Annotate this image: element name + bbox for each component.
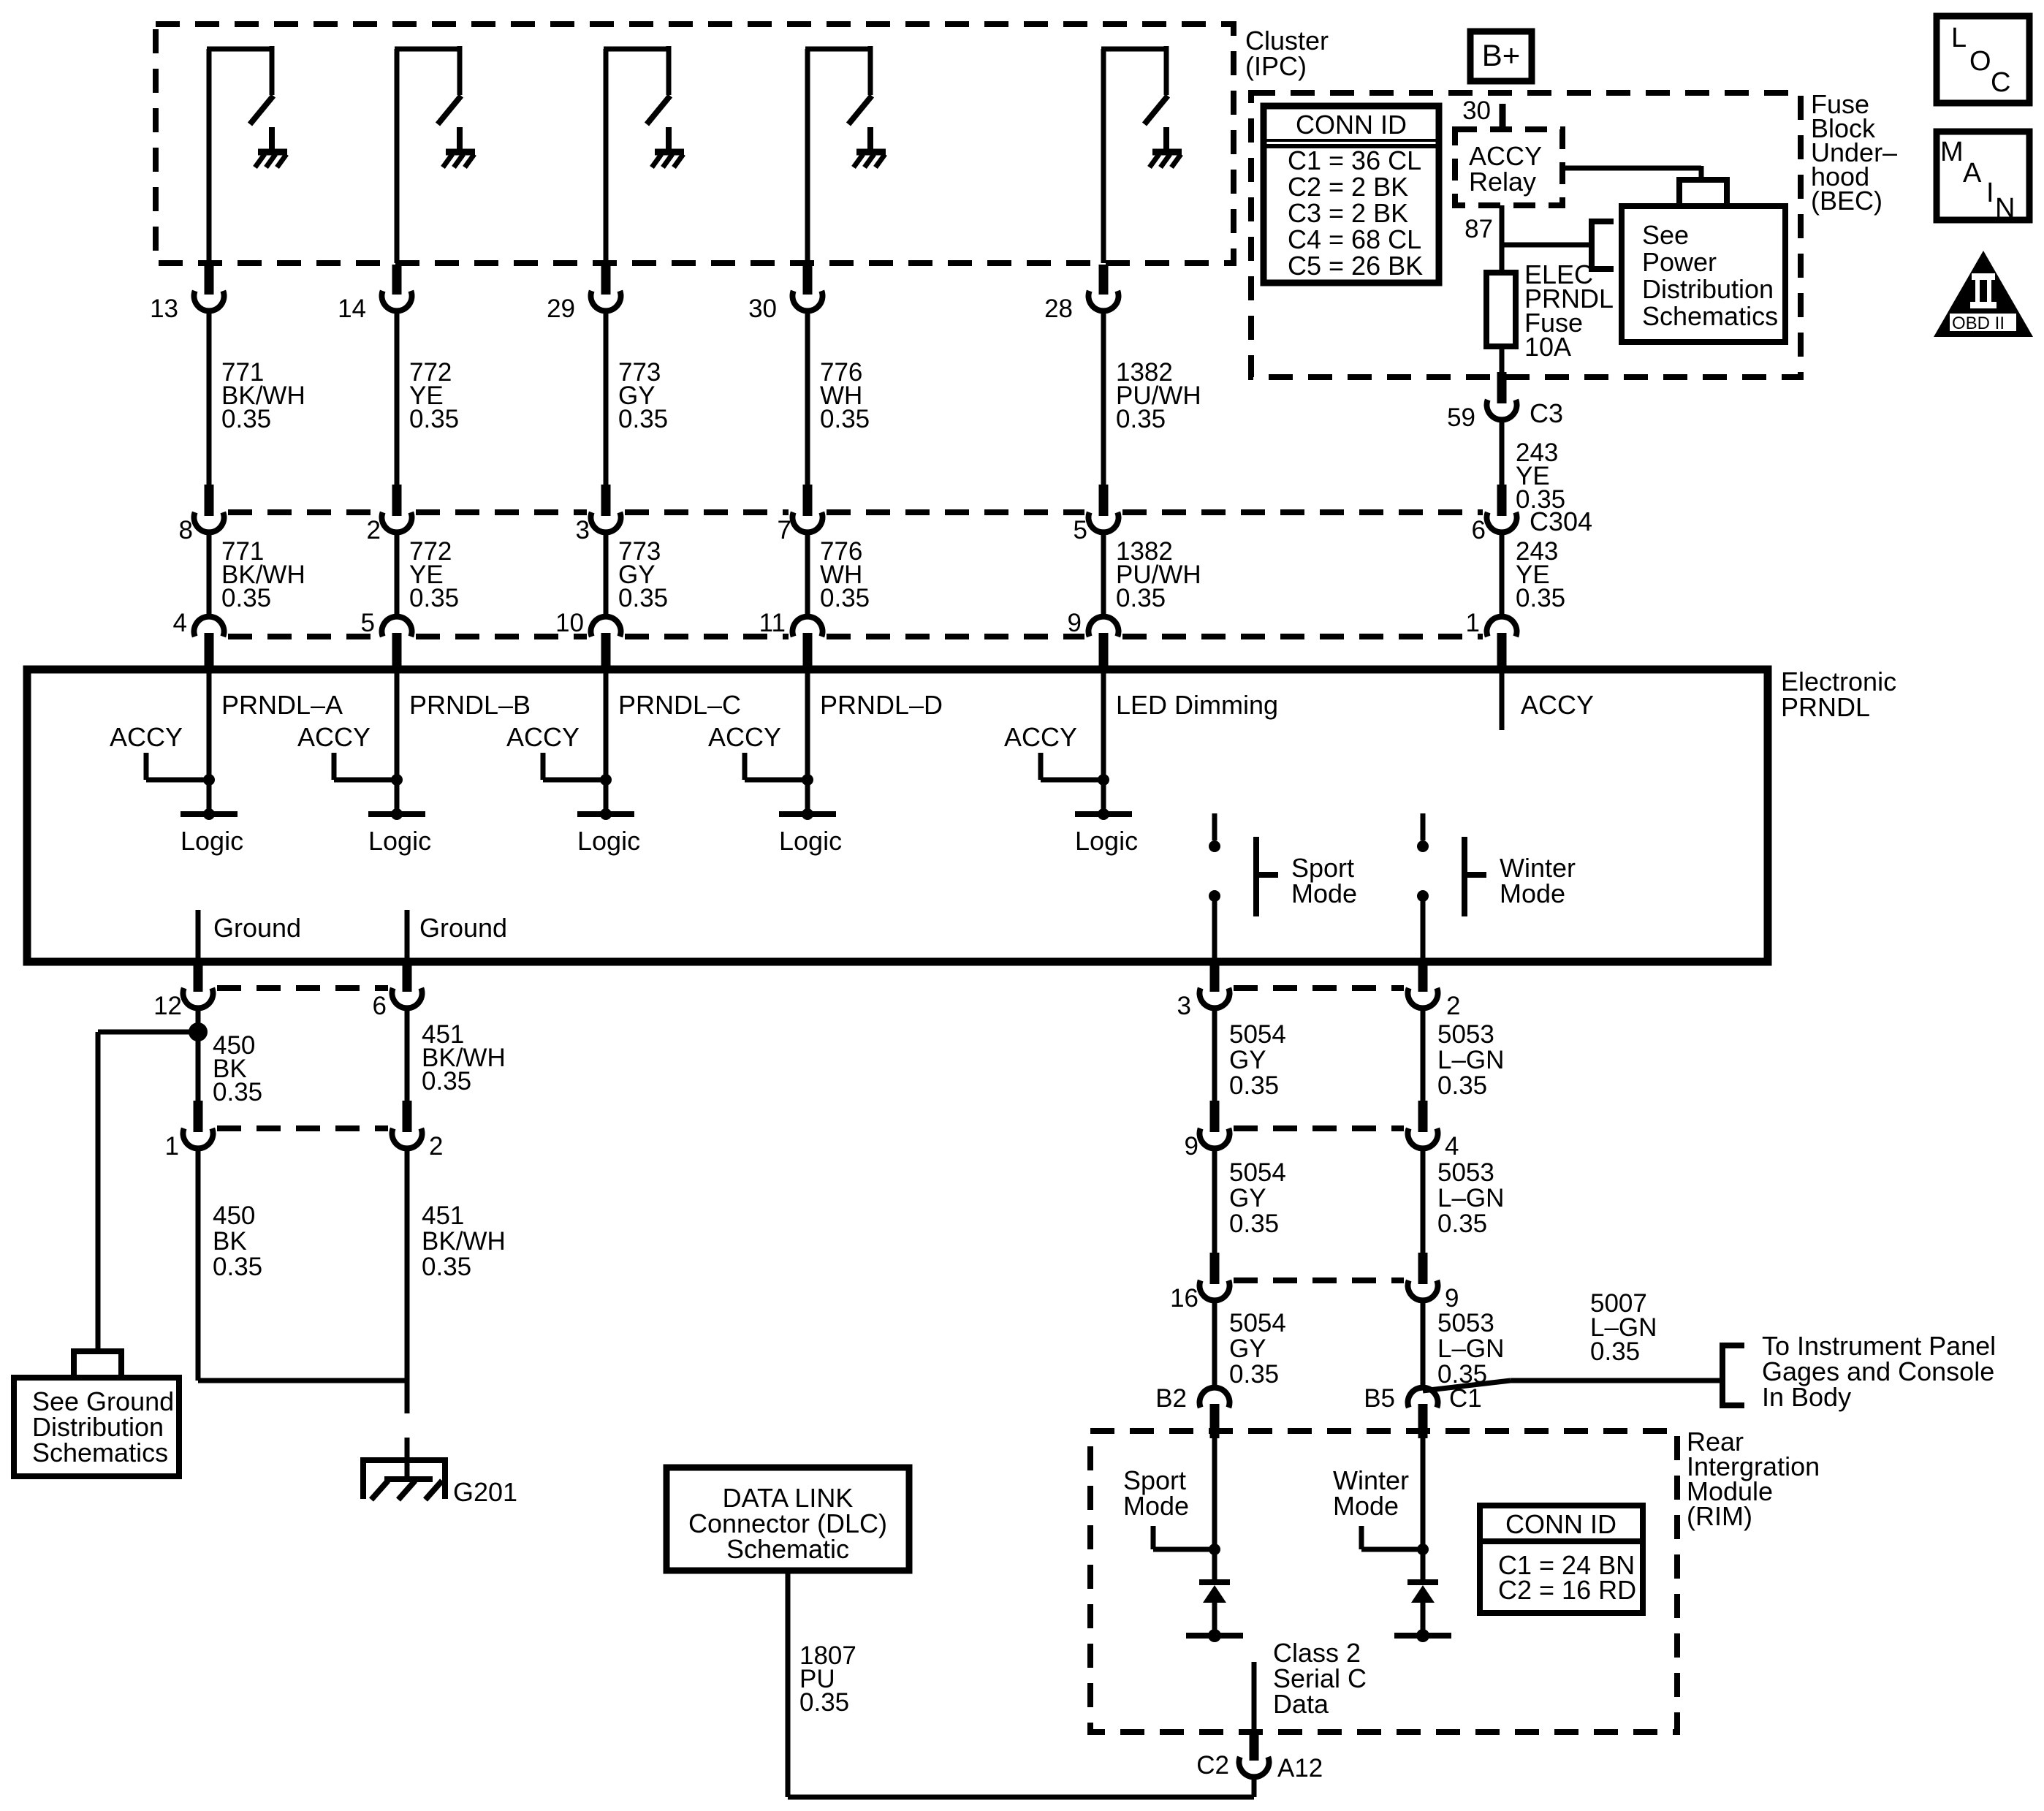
wire label 5054 (3) — [1229, 1309, 1286, 1389]
svg-text:Distribution: Distribution — [1642, 274, 1774, 304]
module connector pin 6 — [392, 962, 422, 1008]
svg-text:0.35: 0.35 — [409, 584, 459, 612]
svg-text:Logic: Logic — [577, 826, 640, 856]
fuse ELEC PRNDL 10A — [1486, 273, 1516, 346]
label Class 2 Serial C Data — [1273, 1638, 1367, 1719]
Winter RIM logic bar — [1394, 1629, 1451, 1642]
svg-text:4: 4 — [173, 609, 187, 637]
off-page bracket to instrument panel — [1720, 1345, 1744, 1405]
svg-text:Logic: Logic — [779, 826, 842, 856]
svg-text:59: 59 — [1447, 403, 1475, 432]
pin number 12 — [153, 992, 182, 1020]
wire label 5007 L-GN 0.35 — [1590, 1289, 1657, 1366]
svg-text:A12: A12 — [1277, 1754, 1323, 1782]
junction dot ACCY-PRNDL–B — [391, 774, 403, 786]
svg-text:4: 4 — [1445, 1132, 1459, 1161]
svg-text:GY: GY — [1229, 1046, 1266, 1074]
svg-text:0.35: 0.35 — [820, 584, 870, 612]
pin number 9 (row5) — [1445, 1284, 1459, 1313]
svg-text:Power: Power — [1642, 247, 1717, 277]
branch staple to ground distribution box — [74, 1348, 121, 1376]
svg-text:Mode: Mode — [1123, 1491, 1189, 1521]
svg-text:A: A — [1963, 158, 1982, 189]
svg-text:5054: 5054 — [1229, 1020, 1286, 1049]
svg-text:ACCY: ACCY — [1521, 690, 1594, 720]
OBD II triangle symbol — [1934, 251, 2033, 337]
ground wire stub 2 inside module — [405, 910, 410, 962]
svg-text:L: L — [1951, 23, 1967, 53]
pin number 14 — [338, 295, 366, 323]
svg-text:9: 9 — [1445, 1284, 1459, 1313]
connector C304 dashed row (top) — [228, 509, 1483, 515]
svg-text:C4 = 68 CL: C4 = 68 CL — [1288, 224, 1421, 254]
switch S5 blade — [1144, 96, 1168, 124]
svg-text:0.35: 0.35 — [618, 584, 668, 612]
svg-text:Ground: Ground — [419, 913, 507, 943]
svg-text:PRNDL–A: PRNDL–A — [221, 690, 343, 720]
wire stub to G201 after break — [405, 1438, 410, 1481]
svg-text:In Body: In Body — [1762, 1382, 1851, 1412]
label Cluster (IPC) — [1245, 26, 1329, 81]
svg-text:87: 87 — [1464, 215, 1493, 243]
svg-text:7: 7 — [778, 516, 791, 544]
svg-text:0.35: 0.35 — [1229, 1071, 1279, 1100]
svg-text:Relay: Relay — [1469, 167, 1536, 197]
ACCY label for PRNDL–B — [297, 722, 371, 752]
svg-text:0.35: 0.35 — [799, 1688, 849, 1717]
svg-text:6: 6 — [1472, 516, 1486, 544]
connector C304 pin 11 (bottom) — [793, 617, 823, 672]
pin number 9 — [1068, 609, 1082, 637]
wire 773 GY segment IPC to C304 — [604, 311, 609, 485]
label Logic 5 — [1075, 826, 1138, 856]
label Winter Mode (module) — [1500, 853, 1576, 908]
svg-text:11: 11 — [759, 609, 786, 637]
svg-text:5: 5 — [1074, 516, 1087, 544]
wire label 771 BK/WH 0.35 (C304 span) — [221, 537, 305, 612]
svg-text:3: 3 — [1177, 992, 1191, 1020]
Winter mode actuator bar — [1464, 837, 1486, 916]
wire 450 BK to ground junction — [198, 1149, 407, 1381]
svg-text:30: 30 — [748, 295, 777, 323]
label B+ — [1482, 38, 1521, 72]
see ground distribution schematics box — [14, 1378, 179, 1476]
wire Winter diode to logic bar — [1421, 1603, 1426, 1636]
wire 5054 row5 to RIM — [1212, 1301, 1217, 1388]
switch S1 wire in cluster — [207, 46, 272, 263]
module connector pin 3 — [1200, 962, 1230, 1008]
wire label 451 BK/WH 0.35 (upper) — [422, 1020, 506, 1096]
connector C304 pin 5 (bottom) — [382, 617, 412, 672]
svg-text:5054: 5054 — [1229, 1309, 1286, 1337]
ACCY relay dashed box — [1455, 129, 1562, 205]
svg-text:0.35: 0.35 — [1516, 485, 1565, 514]
CONN ID table divider (RIM) — [1480, 1538, 1643, 1544]
LOC reference box — [1937, 16, 2029, 103]
svg-text:Schematics: Schematics — [1642, 301, 1778, 331]
wire label 5053 (1) — [1437, 1020, 1504, 1100]
svg-text:0.35: 0.35 — [1116, 584, 1166, 612]
connector pin 30 (IPC harness) — [793, 265, 823, 311]
svg-text:PRNDL–B: PRNDL–B — [409, 690, 531, 720]
wire 5054 row4 to row5 — [1212, 1149, 1217, 1253]
wire label 773 GY 0.35 (upper) — [618, 358, 668, 433]
wire label 773 GY 0.35 (C304 span) — [618, 537, 668, 612]
svg-text:(BEC): (BEC) — [1811, 186, 1882, 216]
svg-text:I: I — [1986, 178, 1994, 208]
Winter mode switch contact dots — [1417, 840, 1429, 902]
ground wire stub 1 inside module — [196, 910, 201, 962]
wire label 1382 PU/WH 0.35 (upper) — [1116, 358, 1201, 433]
ACCY label for PRNDL–A — [110, 722, 183, 752]
switch S4 wire in cluster — [805, 46, 870, 263]
label PRNDL–C — [618, 690, 741, 720]
svg-text:0.35: 0.35 — [1116, 405, 1166, 433]
wire ACCY stub inside module — [1500, 669, 1505, 730]
wire A12 to DLC — [788, 1777, 1254, 1798]
wire 771 BK/WH inside C304 span — [207, 533, 212, 617]
svg-text:CONN ID: CONN ID — [1505, 1509, 1616, 1539]
wire relay 87 down to fuse — [1500, 205, 1505, 273]
label Rear Intergration Module (RIM) — [1687, 1427, 1820, 1531]
pin number 5 — [1074, 516, 1087, 544]
rear integration module dashed box — [1090, 1431, 1677, 1732]
svg-text:3: 3 — [576, 516, 590, 544]
wire 773 GY inside C304 span — [604, 533, 609, 617]
pin number 6 — [1472, 516, 1486, 544]
label See Power Distribution Schematics — [1642, 220, 1778, 331]
pin number 2 — [1446, 992, 1460, 1020]
label Sport Mode (RIM) — [1123, 1465, 1189, 1521]
svg-text:Mode: Mode — [1500, 878, 1565, 908]
svg-text:Ground: Ground — [213, 913, 301, 943]
svg-text:13: 13 — [150, 295, 178, 323]
svg-text:10: 10 — [555, 609, 584, 637]
pin number 10 — [555, 609, 584, 637]
svg-text:ACCY: ACCY — [1004, 722, 1077, 752]
switch S2 wire in cluster — [395, 46, 460, 263]
wire label 772 YE 0.35 (C304 span) — [409, 537, 459, 612]
connector C304 pin 8 (top) — [194, 485, 224, 532]
ACCY elbow for PRNDL–D — [745, 753, 808, 780]
label C304 — [1530, 506, 1592, 536]
pin label C2 — [1196, 1751, 1229, 1780]
label Logic 1 — [181, 826, 243, 856]
wire 1382 PU/WH segment IPC to C304 — [1101, 311, 1106, 485]
wire relay coil to power distribution — [1559, 166, 1701, 183]
wire label 5054 (1) — [1229, 1020, 1286, 1100]
connector pin 13 (IPC harness) — [194, 265, 224, 311]
wire label 1807 PU 0.35 — [799, 1641, 856, 1717]
bracket into power distribution box — [1589, 221, 1614, 269]
svg-text:C3 = 2 BK: C3 = 2 BK — [1288, 198, 1408, 228]
junction dot Winter RIM — [1417, 1544, 1429, 1555]
connector B5 C1 into RIM — [1407, 1388, 1437, 1438]
logic contact bar LED Dimming — [1075, 808, 1132, 820]
connector pin 14 (IPC harness) — [382, 265, 412, 311]
pin number 87 — [1464, 215, 1493, 243]
svg-text:0.35: 0.35 — [221, 405, 271, 433]
connector C304 pin 4 (bottom) — [194, 617, 224, 672]
svg-text:8: 8 — [179, 516, 193, 544]
svg-text:BK/WH: BK/WH — [422, 1227, 506, 1256]
wire 776 WH inside C304 span — [805, 533, 810, 617]
svg-text:C2 = 16 RD: C2 = 16 RD — [1498, 1575, 1636, 1605]
module connector pin 2 — [1407, 962, 1437, 1008]
label LED Dimming — [1116, 690, 1278, 720]
svg-text:14: 14 — [338, 295, 366, 323]
wire 87 branch to power distribution box — [1502, 243, 1592, 248]
wire label 772 YE 0.35 (upper) — [409, 358, 459, 433]
wire 451 BK/WH to G201 — [405, 1149, 410, 1414]
Sport mode switch wire to module pin — [1212, 896, 1217, 962]
connector pin 4 (row4) — [1407, 1101, 1437, 1148]
svg-text:B2: B2 — [1155, 1384, 1187, 1413]
svg-text:0.35: 0.35 — [422, 1253, 471, 1281]
svg-text:12: 12 — [153, 992, 182, 1020]
svg-text:See: See — [1642, 220, 1689, 250]
connector C2 A12 — [1239, 1729, 1269, 1777]
wire fuse to connector C3 — [1500, 346, 1505, 373]
svg-text:PRNDL–D: PRNDL–D — [820, 690, 943, 720]
switch S2 internal ground — [443, 127, 475, 167]
ACCY elbow for LED Dimming — [1041, 753, 1103, 780]
connector row dashes 1-2 — [217, 1125, 388, 1131]
pin label C1 — [1449, 1384, 1482, 1413]
pin number 3 — [1177, 992, 1191, 1020]
pin number 1 (body harness) — [165, 1132, 179, 1161]
wire 1382 PU/WH inside C304 span — [1101, 533, 1106, 617]
label Logic 4 — [779, 826, 842, 856]
label Ground 2 — [419, 913, 507, 943]
pin number 4 (row4) — [1445, 1132, 1459, 1161]
connector C304 pin 3 (top) — [590, 485, 620, 532]
svg-text:G201: G201 — [453, 1477, 517, 1507]
svg-text:Logic: Logic — [368, 826, 431, 856]
connector C304 pin 9 (bottom) — [1089, 617, 1119, 672]
svg-text:0.35: 0.35 — [820, 405, 870, 433]
svg-text:L–GN: L–GN — [1437, 1334, 1504, 1363]
ACCY elbow for PRNDL–A — [146, 753, 209, 780]
svg-text:1: 1 — [165, 1132, 179, 1161]
switch S5 internal ground — [1150, 127, 1182, 167]
svg-text:CONN ID: CONN ID — [1296, 110, 1407, 140]
svg-text:0.35: 0.35 — [1437, 1210, 1487, 1238]
label ACCY (module pin) — [1521, 690, 1594, 720]
B+ power symbol box — [1470, 31, 1532, 81]
svg-text:L–GN: L–GN — [1437, 1184, 1504, 1212]
junction dot wire 450 — [189, 1022, 208, 1041]
svg-text:B+: B+ — [1482, 38, 1521, 72]
svg-text:6: 6 — [373, 992, 387, 1020]
svg-text:PRNDL–C: PRNDL–C — [618, 690, 741, 720]
ACCY label for PRNDL–D — [708, 722, 781, 752]
connector row dashes 16-9 — [1234, 1277, 1404, 1283]
diode D-Winter — [1407, 1582, 1438, 1603]
wire class 2 serial data — [1252, 1662, 1257, 1732]
wire label 776 WH 0.35 (C304 span) — [820, 537, 870, 612]
logic contact bar PRNDL–D — [779, 808, 836, 820]
switch S1 blade — [250, 96, 273, 124]
logic contact bar PRNDL–A — [181, 808, 238, 820]
label Fuse Block Under-hood (BEC) — [1811, 89, 1897, 216]
connector C304 pin 10 (bottom) — [590, 617, 620, 672]
wire label 243 YE 0.35 (upper) — [1516, 438, 1565, 514]
label ACCY Relay — [1469, 141, 1542, 197]
logic contact bar PRNDL–C — [577, 808, 634, 820]
svg-text:0.35: 0.35 — [1229, 1360, 1279, 1389]
switch S4 internal ground — [854, 127, 886, 167]
ACCY label for LED Dimming — [1004, 722, 1077, 752]
wire 5053 row5 to RIM — [1421, 1301, 1426, 1388]
svg-text:L–GN: L–GN — [1437, 1046, 1504, 1074]
svg-text:30: 30 — [1462, 96, 1491, 125]
wire 243 YE C3 to C304 — [1500, 420, 1505, 485]
wire Sport diode to logic bar — [1212, 1603, 1217, 1636]
connector pin 9 (row5) — [1407, 1253, 1437, 1300]
svg-text:450: 450 — [213, 1201, 255, 1230]
connector C304 pin 7 (top) — [793, 485, 823, 532]
Sport mode actuator bar — [1256, 837, 1278, 916]
svg-text:Logic: Logic — [1075, 826, 1138, 856]
switch S3 wire in cluster — [604, 46, 669, 263]
pin number 13 — [150, 295, 178, 323]
pin number 5 — [361, 609, 375, 637]
wire 5053 row4 to row5 — [1421, 1149, 1426, 1253]
svg-text:5: 5 — [361, 609, 375, 637]
wire PRNDL–B inside module — [395, 669, 400, 814]
MAIN letters — [1940, 137, 2015, 224]
CONN ID table divider — [1264, 140, 1439, 146]
label DATA LINK Connector (DLC) Schematic — [688, 1483, 887, 1564]
wire label 1382 PU/WH 0.35 (C304 span) — [1116, 537, 1201, 612]
svg-text:0.35: 0.35 — [1516, 584, 1565, 612]
label G201 — [453, 1477, 517, 1507]
pin number 1 — [1466, 609, 1480, 637]
svg-text:ACCY: ACCY — [708, 722, 781, 752]
wire Winter into RIM — [1421, 1438, 1426, 1582]
connector C304 dashed row (bottom) — [228, 634, 1483, 639]
svg-text:Mode: Mode — [1291, 878, 1357, 908]
svg-text:9: 9 — [1185, 1132, 1198, 1161]
label Logic 3 — [577, 826, 640, 856]
label PRNDL–A — [221, 690, 343, 720]
pin number 30 — [748, 295, 777, 323]
svg-text:29: 29 — [547, 295, 575, 323]
svg-text:16: 16 — [1170, 1284, 1198, 1313]
svg-text:0.35: 0.35 — [422, 1067, 471, 1096]
svg-text:PRNDL: PRNDL — [1781, 692, 1870, 722]
label CONN ID — [1296, 110, 1407, 140]
wire PRNDL–D inside module — [805, 669, 810, 814]
pin label B5 — [1364, 1384, 1395, 1413]
wire PRNDL–A inside module — [207, 669, 212, 814]
svg-text:OBD II: OBD II — [1952, 314, 2005, 333]
connector 59 C3 — [1487, 372, 1517, 419]
ACCY elbow for PRNDL–B — [334, 753, 397, 780]
pin number 4 — [173, 609, 187, 637]
connector pin 2 (body harness) — [392, 1101, 422, 1148]
CONN ID table box (IPC) — [1264, 106, 1439, 283]
wire label 5053 (3) — [1437, 1309, 1504, 1389]
wire 5007 L-GN to instrument panel — [1423, 1381, 1722, 1391]
wire PRNDL–C inside module — [604, 669, 609, 814]
connector row dashes 12-6 — [217, 985, 388, 991]
label PRNDL–B — [409, 690, 531, 720]
Winter mode switch wire to module pin — [1421, 896, 1426, 962]
pin number 6 — [373, 992, 387, 1020]
svg-text:5053: 5053 — [1437, 1158, 1494, 1187]
label To Instrument Panel Gages and Console In Body — [1762, 1331, 1996, 1412]
data link connector schematic box — [666, 1468, 909, 1571]
diode D-Sport — [1199, 1582, 1230, 1603]
CONN ID rows C1-C5 — [1288, 145, 1423, 281]
pin number 3 — [576, 516, 590, 544]
connector C304 pin 6 (top right) — [1487, 485, 1517, 532]
ACCY label for PRNDL–C — [506, 722, 580, 752]
label Electronic PRNDL — [1781, 667, 1896, 722]
pin number 59 — [1447, 403, 1475, 432]
svg-text:B5: B5 — [1364, 1384, 1395, 1413]
see power distribution schematics box — [1622, 206, 1785, 342]
svg-text:9: 9 — [1068, 609, 1082, 637]
label CONN ID (RIM) — [1505, 1509, 1616, 1539]
connector C304 pin 2 (top) — [382, 485, 412, 532]
Winter mode switch stub — [1421, 813, 1426, 840]
Electronic PRNDL module box — [27, 669, 1768, 962]
ACCY elbow for PRNDL–C — [543, 753, 606, 780]
svg-text:BK: BK — [213, 1227, 247, 1256]
wire label 776 WH 0.35 (upper) — [820, 358, 870, 433]
wire label 243 YE 0.35 (C304 span) — [1516, 537, 1565, 612]
svg-text:0.35: 0.35 — [213, 1253, 262, 1281]
svg-text:5054: 5054 — [1229, 1158, 1286, 1187]
svg-text:C5 = 26 BK: C5 = 26 BK — [1288, 251, 1423, 281]
svg-text:M: M — [1940, 137, 1964, 167]
wire 772 YE segment IPC to C304 — [395, 311, 400, 485]
svg-text:ACCY: ACCY — [506, 722, 580, 752]
svg-text:(IPC): (IPC) — [1245, 51, 1307, 81]
Sport mode switch contact dots — [1209, 840, 1220, 902]
branch bracket to power distribution box — [1679, 177, 1727, 203]
svg-text:5053: 5053 — [1437, 1020, 1494, 1049]
svg-text:O: O — [1969, 46, 1991, 77]
connector row dashes 9-4 — [1234, 1125, 1404, 1131]
wire label 450 BK 0.35 (upper) — [213, 1031, 262, 1106]
svg-text:ACCY: ACCY — [297, 722, 371, 752]
wire 5053 module to splice row — [1421, 1009, 1426, 1101]
junction dot ACCY-PRNDL–D — [802, 774, 813, 786]
pin label A12 — [1277, 1754, 1323, 1782]
connector B2 into RIM — [1200, 1388, 1230, 1438]
connector pin 16 (row5) — [1200, 1253, 1230, 1300]
svg-text:0.35: 0.35 — [1437, 1071, 1487, 1100]
switch S2 blade — [438, 96, 461, 124]
svg-text:GY: GY — [1229, 1184, 1266, 1212]
Sport RIM logic bar — [1186, 1629, 1243, 1642]
svg-text:C: C — [1991, 67, 2010, 98]
wire label 771 BK/WH 0.35 (upper) — [221, 358, 305, 433]
svg-text:N: N — [1995, 193, 2015, 224]
ground G201 hatch symbol — [371, 1479, 442, 1500]
wire 771 BK/WH segment IPC to C304 — [207, 311, 212, 485]
pin number 9 (row4) — [1185, 1132, 1198, 1161]
svg-text:0.35: 0.35 — [213, 1078, 262, 1106]
svg-text:5053: 5053 — [1437, 1309, 1494, 1337]
connector pin 29 (IPC harness) — [591, 265, 621, 311]
connector pin 9 (row4) — [1200, 1101, 1230, 1148]
svg-text:Schematic: Schematic — [726, 1534, 849, 1564]
